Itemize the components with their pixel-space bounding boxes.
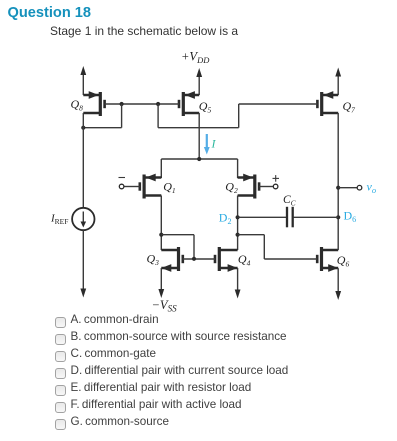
svg-text:Q6: Q6 (337, 253, 350, 269)
svg-text:CC: CC (283, 194, 297, 208)
transistor Q4 (215, 247, 238, 272)
node D6 (336, 215, 340, 219)
wire: gate bias Q8-Q5 (105, 103, 179, 105)
wire: Q7 drain to Q6 drain (337, 113, 339, 250)
transistor Q7 (317, 91, 338, 116)
wire: VDD arrow above Q8 (82, 73, 84, 95)
node: output tap (336, 186, 340, 190)
node: tail junction (197, 157, 201, 161)
node: bias tap right (156, 102, 160, 106)
wire: drop toward Q7 gate (157, 104, 159, 128)
wire: tail to Q1 source (160, 159, 162, 178)
transistor Q2 (238, 174, 260, 199)
wire: tail (161, 158, 237, 160)
wire: across toward Q7 (158, 127, 239, 129)
node: Q3 drain/gate tie (159, 233, 163, 237)
svg-text:Q2: Q2 (225, 180, 238, 196)
node: bias tap left (120, 102, 124, 106)
wire: +VDD arrow above Q5 (198, 75, 200, 95)
output terminal vo (338, 185, 362, 190)
transistor Q5 (179, 91, 199, 116)
svg-text:D6: D6 (344, 209, 357, 225)
wire: Q2 drain to Q4 drain (node D2) (237, 196, 239, 251)
wire: Q6 source to -VSS (337, 268, 339, 293)
wire: VDD arrow above Q7 (337, 75, 339, 96)
transistor Q6 (317, 247, 338, 272)
svg-text:vo: vo (367, 180, 377, 196)
node: Q3/Q4 gate junction (192, 257, 196, 261)
svg-text:Q1: Q1 (163, 180, 175, 196)
wire: Q1 drain to Q3 drain (160, 196, 162, 251)
wire: Q8 drain down (82, 113, 84, 128)
wire: Cc to D6 (294, 216, 339, 218)
wire: to Q6 gate across (238, 234, 265, 236)
wire: to Q6 gate down (263, 235, 265, 259)
wire: D2 to Cc (238, 216, 286, 218)
current arrow I (blue) (204, 134, 210, 155)
svg-text:IREF: IREF (50, 213, 68, 226)
transistor Q3 (161, 247, 183, 272)
wire: to Q7 gate (239, 103, 318, 105)
wire: to Q6 gate (264, 258, 317, 260)
wire: Q3 source to -VSS (160, 268, 162, 291)
wire: Q3 diode tie across (161, 234, 194, 236)
node: branch to Q6 gate (236, 233, 240, 237)
wire: Q4 source to -VSS (237, 268, 239, 292)
wire: Q3 diode tie down (193, 235, 195, 259)
node D2 (236, 215, 240, 219)
wire: Q5 drain to tail (198, 113, 200, 159)
svg-text:Q7: Q7 (343, 99, 356, 115)
wire: Q3-Q4 gate tie (183, 258, 215, 260)
current source IREF (72, 208, 94, 230)
node: Q8 drain / IREF (81, 126, 85, 130)
svg-text:−VSS: −VSS (152, 298, 178, 314)
svg-text:Q8: Q8 (71, 97, 84, 113)
wire: IREF to -VSS arrow (82, 230, 84, 290)
wire: up to Q7 gate level (238, 104, 240, 128)
svg-text:Q5: Q5 (199, 99, 212, 115)
wire: down to IREF (82, 128, 84, 208)
transistor Q1 (140, 174, 162, 199)
wire: tail to Q2 source (237, 159, 239, 178)
input terminal - (Q1 gate) (119, 178, 140, 189)
svg-text:I: I (211, 137, 217, 151)
wire: drop to Q8 drain route (121, 104, 123, 128)
wire: across to Q8 drain (83, 127, 121, 129)
transistor Q8 (83, 91, 104, 116)
capacitor Cc (287, 207, 293, 228)
svg-text:+VDD: +VDD (181, 50, 210, 66)
input terminal + (Q2 gate) (259, 175, 279, 189)
svg-text:D2: D2 (219, 211, 232, 227)
svg-text:Q4: Q4 (238, 252, 251, 268)
svg-text:Q3: Q3 (147, 252, 160, 268)
